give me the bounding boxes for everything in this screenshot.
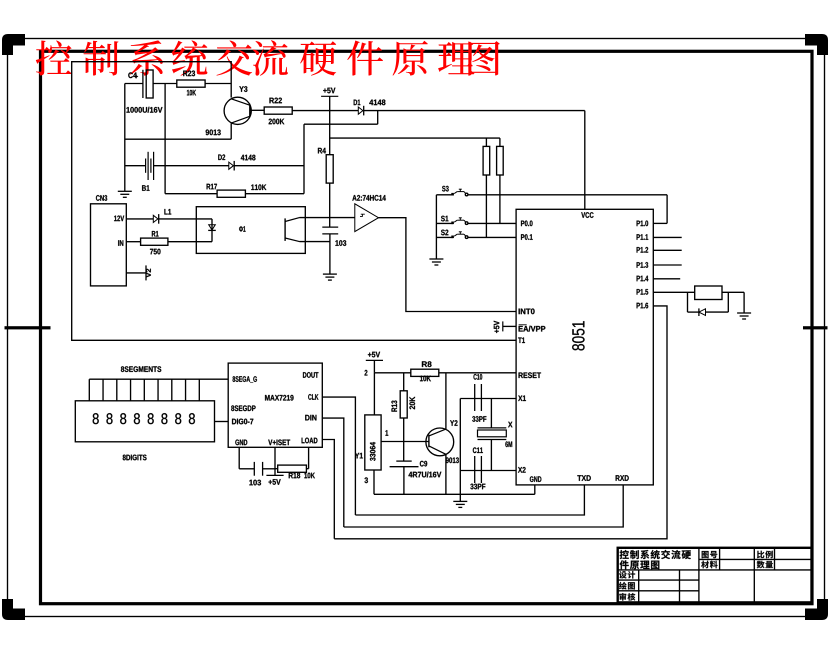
transistor Y2 <box>426 428 454 456</box>
wire CLK <box>322 397 355 515</box>
ground switch rail <box>429 258 443 260</box>
wire P1.6 to LOAD <box>334 306 667 539</box>
resistor R8 <box>411 369 439 376</box>
wire Y1 pin3 <box>373 470 375 494</box>
title block label 材料 <box>701 561 717 569</box>
resistor R1 <box>126 241 140 243</box>
power +5V top <box>321 95 338 97</box>
power +5V MAX <box>266 474 283 476</box>
edge mark left-middle <box>5 326 51 329</box>
title block grid <box>698 548 700 603</box>
pullup resistor left <box>485 138 487 146</box>
title block label 图号 <box>702 551 718 558</box>
wire V+ISET <box>274 447 276 475</box>
title block label 数量 <box>757 561 773 569</box>
corner mark bottom-right <box>805 599 828 620</box>
wire DIN <box>322 418 344 527</box>
capacitor 103 MAX <box>253 462 255 476</box>
transistor Y3 <box>224 97 251 124</box>
edge mark right-middle <box>803 326 828 329</box>
ic 8051 <box>516 209 653 485</box>
wire Y2 collector <box>445 373 447 429</box>
pullup rail wire <box>330 137 500 139</box>
resistor R22 <box>264 107 292 114</box>
title block drawing name <box>620 550 691 559</box>
corner mark top-left <box>2 34 25 55</box>
capacitor C10 <box>460 398 516 400</box>
node rail left <box>124 84 126 192</box>
wire Y1 pin1 to Y2 base <box>381 441 429 443</box>
resistor R4 <box>326 155 333 183</box>
wire +5V row <box>374 372 410 374</box>
ground snubber <box>737 312 751 314</box>
power +5V EA pin <box>502 321 504 331</box>
resistor P1.5 snubber <box>695 286 722 300</box>
op-amp A2 74HC14 <box>355 204 379 232</box>
title block label 设计 <box>619 571 635 578</box>
wire emitter Y3 <box>230 123 232 139</box>
wire P1.5 <box>653 291 694 293</box>
capacitor C11 <box>460 470 516 472</box>
pin CN3-3 terminator <box>126 272 146 274</box>
wire MAX GND <box>238 447 240 469</box>
wire snubber branch right <box>727 292 729 312</box>
switch S3 <box>436 194 453 196</box>
capacitor 103 opamp input <box>322 226 338 228</box>
opto phototransistor <box>284 218 286 241</box>
ground opamp cap <box>323 273 337 275</box>
display 8 digits <box>75 401 214 442</box>
title block frame <box>618 548 812 603</box>
capacitor C4 <box>125 83 143 85</box>
wire collector-loop to T1 <box>72 62 516 341</box>
wire snubber to ground <box>743 292 745 313</box>
title block label 绘图 <box>619 582 635 590</box>
resistor R23 <box>177 80 205 87</box>
resistor R13 <box>403 373 405 391</box>
title block label 审核 <box>619 593 635 601</box>
diode D1 <box>358 107 363 114</box>
battery B1 <box>125 165 146 167</box>
wire P1.2 stub <box>653 249 681 251</box>
optocoupler box U1 <box>196 207 305 254</box>
diode L1 <box>126 218 153 220</box>
diode snubber <box>688 311 699 313</box>
wire D1 feedback node <box>303 124 305 194</box>
wire VCC drop <box>584 111 586 210</box>
wire B1-R17 branch <box>164 84 166 194</box>
ground lower rail <box>459 399 461 502</box>
wire S3 to P1.0 <box>666 195 668 224</box>
power +5V Y1 <box>366 359 383 361</box>
pullup resistor right <box>499 138 501 146</box>
wire P1.3 stub <box>653 264 681 266</box>
corner mark top-right <box>805 34 828 55</box>
wire gnd rail lower <box>374 493 535 495</box>
wire Y2 emitter <box>445 454 447 494</box>
title block label 比例 <box>757 551 773 558</box>
wire opto emitter <box>300 241 330 243</box>
wire P1.4 stub <box>653 278 680 280</box>
resistor R17 <box>165 193 217 195</box>
wire Y1 pin2 <box>373 373 375 415</box>
crystal X 6M <box>490 399 492 428</box>
corner mark bottom-left <box>2 599 25 620</box>
diode D2 <box>229 162 234 169</box>
wire TXD-CLK <box>355 485 584 515</box>
wire P1.1 stub <box>653 236 681 238</box>
ground B1 rail <box>118 190 132 192</box>
capacitor C9 <box>396 460 411 462</box>
wire switch rail <box>435 195 437 259</box>
wire LOAD <box>322 440 334 539</box>
switch S2 <box>436 236 453 238</box>
ic MAX7219 <box>228 363 322 447</box>
border thick frame <box>41 51 813 603</box>
resistor R18 <box>275 468 278 470</box>
wire 8051 GND pin <box>534 485 536 494</box>
wire RXD-DIN <box>344 485 623 527</box>
red title 控制系统交流硬件原理图 <box>36 40 500 76</box>
connector CN3 <box>91 204 127 286</box>
wire opto collector node <box>300 217 355 219</box>
wire Y3 base <box>250 109 264 111</box>
wire snubber branch left <box>687 292 689 312</box>
wire DIG bus <box>215 421 229 423</box>
switch S1 <box>436 222 453 224</box>
ic Y1 33064 <box>365 415 381 470</box>
wire segments bus comb <box>89 378 228 380</box>
opto LED <box>211 219 213 242</box>
wire opamp output to INT0 <box>379 218 517 312</box>
